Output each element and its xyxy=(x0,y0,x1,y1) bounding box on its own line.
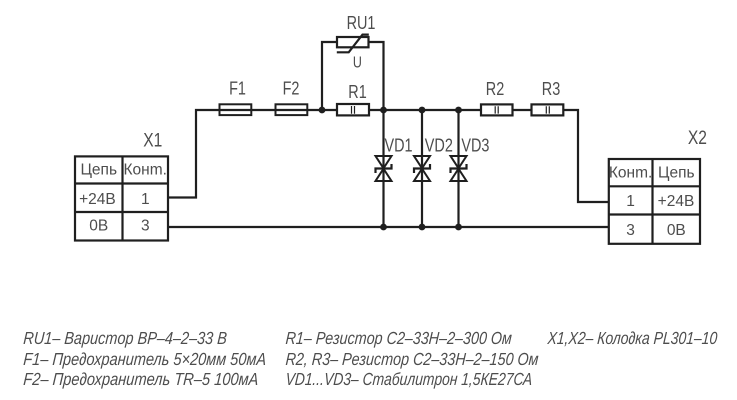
svg-text:Конm.: Конm. xyxy=(609,165,652,182)
svg-text:VD1: VD1 xyxy=(385,135,413,156)
svg-text:1: 1 xyxy=(626,193,635,210)
svg-text:RU1: RU1 xyxy=(347,12,376,33)
svg-text:X1: X1 xyxy=(143,129,162,151)
svg-text:0В: 0В xyxy=(667,222,686,239)
svg-text:Цепь: Цепь xyxy=(80,162,117,179)
svg-text:Цепь: Цепь xyxy=(658,165,695,182)
svg-text:R1: R1 xyxy=(348,81,366,102)
svg-text:VD3: VD3 xyxy=(461,135,489,156)
svg-text:VD1...VD3– Сmабилиmрон 1,5КЕ27: VD1...VD3– Сmабилиmрон 1,5КЕ27СА xyxy=(285,371,533,390)
svg-text:R2: R2 xyxy=(486,78,504,99)
svg-text:R2, R3– Резисmор С2–33Н–2–150: R2, R3– Резисmор С2–33Н–2–150 Ом xyxy=(285,350,539,370)
svg-text:Конm.: Конm. xyxy=(124,162,167,179)
svg-text:VD2: VD2 xyxy=(425,135,453,156)
svg-text:+24В: +24В xyxy=(658,193,695,210)
svg-text:1: 1 xyxy=(141,191,150,208)
svg-text:+24В: +24В xyxy=(79,191,116,208)
svg-text:0В: 0В xyxy=(89,218,108,235)
svg-text:X1,X2– Коло∂ка PL301–10: X1,X2– Коло∂ка PL301–10 xyxy=(546,330,718,349)
svg-text:F1– Пре∂охраниmель 5×20мм 50мА: F1– Пре∂охраниmель 5×20мм 50мА xyxy=(23,350,267,370)
svg-text:X2: X2 xyxy=(688,126,707,148)
svg-text:F1: F1 xyxy=(229,78,246,99)
svg-text:R3: R3 xyxy=(542,78,560,99)
svg-text:F2: F2 xyxy=(283,78,300,99)
svg-text:RU1– Варисmор ВР–4–2–33 В: RU1– Варисmор ВР–4–2–33 В xyxy=(23,329,228,349)
svg-text:3: 3 xyxy=(626,222,635,239)
svg-text:3: 3 xyxy=(141,218,150,235)
svg-text:F2– Пре∂охраниmель TR–5 100мА: F2– Пре∂охраниmель TR–5 100мА xyxy=(23,370,259,389)
svg-text:R1– Резисmор С2–33Н–2–300 Ом: R1– Резисmор С2–33Н–2–300 Ом xyxy=(285,330,513,349)
svg-text:U: U xyxy=(353,54,362,72)
